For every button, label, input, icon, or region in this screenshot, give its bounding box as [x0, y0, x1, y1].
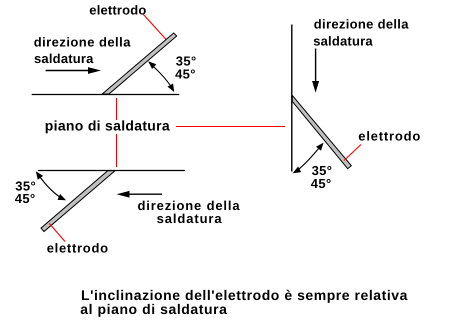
svg-text:piano di saldatura: piano di saldatura — [45, 117, 170, 133]
red vertical connector, lower segment — [116, 134, 118, 167]
arc arrowhead at electrode (right diagram) — [316, 143, 324, 151]
svg-text:saldatura: saldatura — [313, 34, 373, 49]
red leader line to electrode (bottom-left) — [49, 224, 65, 242]
welding plane line (right diagram, vertical) — [291, 25, 293, 172]
svg-text:saldatura: saldatura — [157, 211, 223, 226]
arc arrowhead at electrode (top-left) — [148, 61, 156, 69]
svg-text:direzione della: direzione della — [34, 35, 132, 50]
electrode bar (top-left) — [102, 33, 177, 94]
welding direction arrow head (right diagram) — [312, 81, 319, 93]
svg-text:direzione della: direzione della — [314, 16, 409, 31]
welding direction arrow head (bottom-left) — [117, 191, 130, 198]
svg-text:elettrodo: elettrodo — [47, 241, 109, 256]
arc arrowhead at electrode (bottom-left) — [58, 194, 67, 200]
svg-text:elettrodo: elettrodo — [89, 2, 146, 17]
svg-text:45°: 45° — [15, 191, 36, 206]
welding direction arrow shaft (bottom-left, pointing left) — [127, 193, 162, 195]
welding plane line (top-left, horizontal) — [32, 94, 180, 96]
svg-text:elettrodo: elettrodo — [358, 129, 421, 144]
electrode bar (right diagram) — [292, 95, 351, 168]
arc arrowhead at plane (bottom-left) — [36, 171, 43, 179]
arc arrowhead at plane (top-left) — [168, 84, 175, 93]
svg-text:45°: 45° — [311, 176, 332, 191]
red vertical connector, upper segment — [116, 98, 118, 120]
svg-text:al piano di saldatura: al piano di saldatura — [80, 301, 227, 317]
angle arc (top-left) — [149, 63, 174, 91]
svg-text:45°: 45° — [175, 67, 196, 82]
welding direction arrow shaft (right diagram, pointing down) — [315, 49, 317, 83]
angle arc (bottom-left) — [37, 173, 65, 200]
electrode bar (bottom-left) — [41, 171, 115, 232]
angle arc (right diagram) — [294, 145, 322, 173]
red leader line to electrode (right diagram) — [344, 145, 361, 161]
svg-text:saldatura: saldatura — [34, 51, 94, 66]
arc arrowhead at plane (right diagram) — [293, 167, 302, 174]
red horizontal connector to right diagram — [176, 126, 285, 128]
welding direction arrow head (top-left) — [88, 67, 101, 74]
red leader line to electrode (top-left) — [143, 14, 167, 40]
welding direction arrow shaft (top-left, pointing right) — [46, 70, 89, 72]
welding plane line (bottom-left, horizontal) — [38, 170, 185, 172]
